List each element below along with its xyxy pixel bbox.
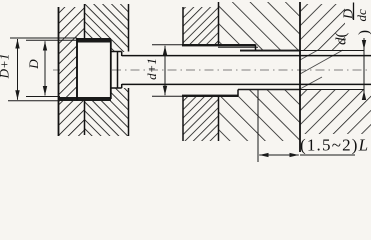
- svg-text:d+1: d+1: [144, 58, 159, 80]
- svg-text:d(: d(: [334, 33, 350, 46]
- svg-text:(1.5~2)L: (1.5~2)L: [300, 136, 369, 155]
- svg-text:D+1: D+1: [0, 54, 12, 80]
- svg-text:): ): [357, 30, 371, 35]
- svg-text:D: D: [26, 59, 41, 70]
- svg-text:dc: dc: [354, 9, 369, 22]
